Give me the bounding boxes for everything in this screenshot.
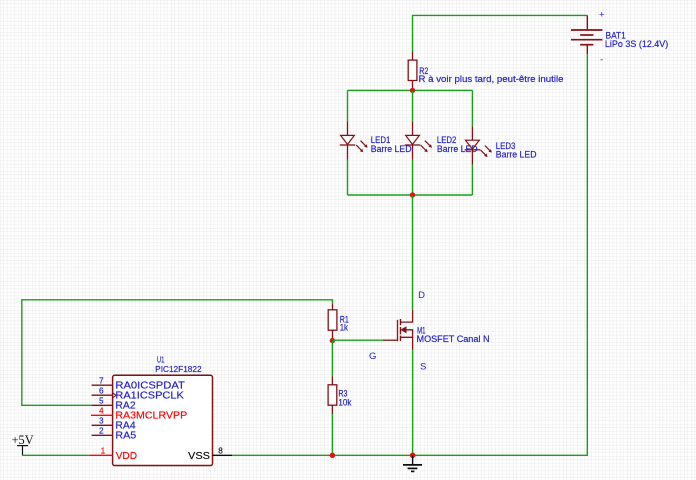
resistor R2 (408, 51, 563, 90)
pin 5 RA2 (92, 404, 113, 406)
svg-text:PIC12F1822: PIC12F1822 (155, 365, 202, 374)
wire: RA2 net (pin 5 up and over to R1 top) (22, 300, 333, 406)
svg-text:6: 6 (99, 387, 104, 396)
svg-text:1: 1 (101, 447, 106, 456)
svg-text:-: - (600, 55, 603, 66)
wire: LED bus to MOSFET drain (412, 195, 414, 310)
transistor M1 (383, 310, 490, 350)
junction: ground (410, 453, 416, 459)
svg-text:RA5: RA5 (115, 430, 136, 441)
junction: R1 bottom / gate (330, 338, 335, 343)
svg-text:7: 7 (99, 377, 104, 386)
svg-text:2: 2 (99, 427, 104, 436)
node S (420, 361, 426, 372)
wire: BAT1 - down to GND rail (413, 54, 588, 455)
resistor R3 (328, 377, 352, 415)
svg-text:1k: 1k (340, 323, 349, 333)
junction: R3 / GND rail (330, 453, 335, 458)
junction: LED bus bottom / drain (410, 192, 415, 197)
battery BAT1 (571, 9, 668, 65)
wire: LED2 column (412, 90, 414, 195)
wire: R3 bottom to GND rail (331, 414, 333, 455)
pin 7 RA0ICSPDAT (92, 384, 113, 386)
svg-text:8: 8 (218, 447, 223, 456)
pin 6 RA1ICSPCLK (92, 394, 113, 396)
svg-text:MOSFET Canal N: MOSFET Canal N (417, 334, 490, 344)
node D (418, 290, 425, 301)
svg-text:VSS: VSS (188, 451, 210, 462)
LED LED3 (465, 126, 537, 164)
svg-text:+5V: +5V (12, 433, 35, 447)
svg-text:G: G (369, 351, 376, 362)
wire: LED bus top (348, 89, 473, 91)
junction: R2 / LED bus top (410, 88, 415, 93)
ground (403, 455, 422, 471)
svg-text:5: 5 (99, 397, 104, 406)
pin 8 VSS (213, 454, 233, 456)
svg-text:4: 4 (99, 407, 104, 416)
pin 4 RA3MCLRVPP (91, 414, 113, 416)
supply +5V (12, 433, 35, 455)
svg-text:S: S (420, 361, 426, 372)
LED LED1 (340, 121, 412, 159)
wire: LED bus bottom (348, 194, 473, 196)
LED LED2 (405, 121, 478, 159)
wire: LED3 column (471, 90, 473, 195)
svg-text:U1: U1 (157, 356, 165, 365)
IC U1 PIC12F1822 (90, 356, 232, 466)
resistor R1 (328, 304, 349, 341)
svg-text:Barre LED: Barre LED (496, 149, 537, 159)
pin 1 VDD (90, 454, 113, 456)
svg-text:VDD: VDD (116, 451, 137, 462)
wire: gate net (332, 339, 382, 341)
wire: battery + rail (R2 top to BAT1 +) (413, 15, 588, 51)
wire: +5V to VDD pin 1 (22, 454, 90, 456)
svg-text:3: 3 (99, 417, 104, 426)
node G (369, 351, 376, 362)
svg-text:10k: 10k (338, 397, 352, 407)
svg-text:LiPo 3S (12.4V): LiPo 3S (12.4V) (605, 39, 668, 49)
pin 2 RA5 (92, 434, 113, 436)
wire: GND rail (VSS to ground junction) (232, 454, 413, 456)
wire: LED1 column (347, 90, 349, 195)
wire: MOSFET source to GND rail (412, 350, 414, 455)
svg-text:D: D (418, 290, 425, 301)
svg-text:+: + (599, 9, 605, 20)
wire: R1 to R3 (331, 341, 333, 377)
pin 3 RA4 (92, 424, 113, 426)
svg-text:R à voir plus tard, peut-être: R à voir plus tard, peut-être inutile (419, 74, 564, 84)
